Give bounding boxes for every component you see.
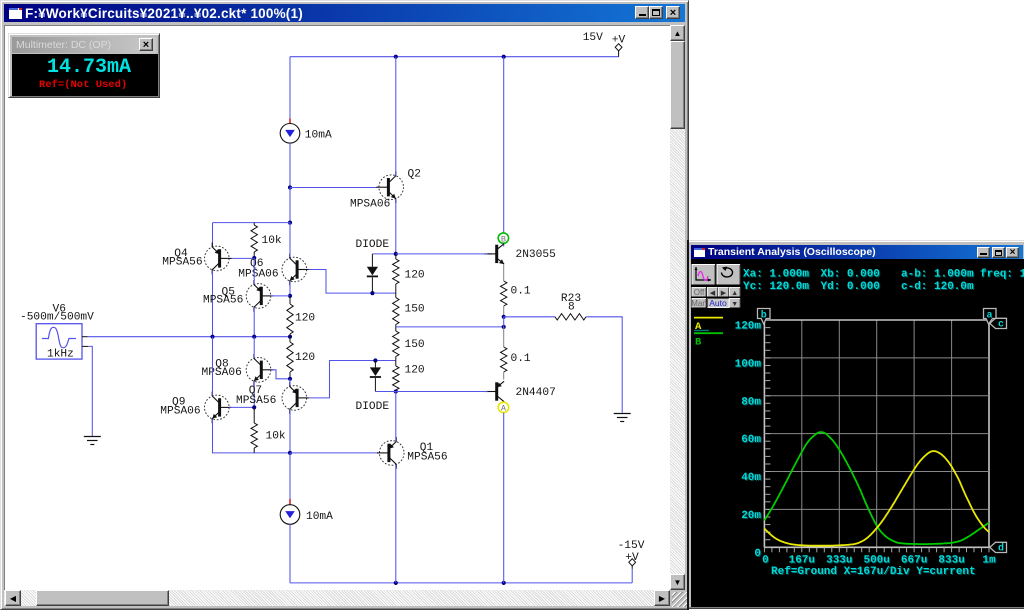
node diode1 cathode tee bbox=[370, 291, 374, 295]
svg-text:10mA: 10mA bbox=[306, 511, 333, 523]
trace A yellow bbox=[764, 451, 989, 546]
wire Q6 base to bias ladder bbox=[309, 270, 396, 294]
main title bar bbox=[4, 4, 685, 22]
svg-text:Off: Off bbox=[694, 288, 705, 297]
svg-text:10k: 10k bbox=[266, 431, 286, 443]
resistor 120 VAS bottom bbox=[395, 361, 397, 367]
svg-text:Yc: 120.0m: Yc: 120.0m bbox=[743, 281, 809, 293]
svg-text:a-b: 1.000m: a-b: 1.000m bbox=[901, 269, 974, 281]
plot grid bbox=[763, 320, 765, 547]
wire top +15V rail bbox=[290, 56, 619, 58]
wire Q6 emitter down bbox=[289, 282, 291, 296]
node Q1 emitter / bottom rail bbox=[394, 581, 398, 585]
diode D2 bbox=[374, 361, 376, 368]
wire Q4 collector down to input node bbox=[212, 271, 214, 337]
transistor U3 2N4407 bbox=[495, 382, 498, 400]
diode D1 bbox=[371, 254, 373, 267]
node Q9 base / Q8 emitter / 10k2 bbox=[252, 405, 256, 409]
multimeter reading 14.73mA bbox=[47, 56, 131, 79]
svg-text:A: A bbox=[501, 404, 507, 414]
resistor 120 bias upper bbox=[289, 296, 291, 304]
wire output node to driver rail bbox=[396, 326, 504, 328]
wire Q9 collector up bbox=[212, 337, 214, 396]
svg-text:120: 120 bbox=[295, 313, 315, 325]
scope toolbar button waveform bbox=[692, 265, 715, 285]
svg-text:8: 8 bbox=[568, 302, 575, 314]
node output rail / bottom rail bbox=[502, 581, 506, 585]
svg-text:120: 120 bbox=[295, 352, 315, 364]
wire Q5 collector up to 10k node bbox=[253, 258, 255, 284]
svg-text:A: A bbox=[695, 321, 702, 333]
node input/120 chain bbox=[288, 335, 292, 339]
transistor Q1 MPSA56 bbox=[379, 441, 404, 466]
svg-text:◀: ◀ bbox=[710, 290, 716, 297]
scope small buttons row1 bbox=[692, 288, 740, 298]
svg-text:150: 150 bbox=[405, 339, 425, 351]
wire Q8 emitter down bbox=[253, 382, 255, 408]
ground symbol V6 bbox=[84, 436, 101, 438]
transistor Q5 MPSA56 bbox=[246, 284, 271, 309]
svg-text:120m: 120m bbox=[735, 321, 762, 333]
svg-text:0: 0 bbox=[762, 555, 769, 567]
svg-text:Xa: 1.000m: Xa: 1.000m bbox=[743, 269, 809, 281]
node top rail / Q2 collector junction bbox=[394, 55, 398, 59]
wire Q2 base bbox=[290, 187, 378, 189]
svg-text:60m: 60m bbox=[741, 434, 761, 446]
svg-text:MPSA56: MPSA56 bbox=[162, 257, 202, 269]
wire Q8 base to 120 chain bottom bbox=[271, 370, 290, 379]
wire 2N4407 base from VAS bbox=[396, 391, 488, 393]
wire Q4 base bbox=[232, 257, 255, 259]
wire Q7 emitter down to lower node bbox=[289, 410, 291, 453]
svg-text:-15V: -15V bbox=[618, 540, 645, 552]
wire col-C to upper bias node bbox=[289, 188, 291, 223]
multimeter display bbox=[12, 54, 158, 96]
wire Q1 emitter to bottom rail bbox=[395, 465, 397, 583]
node Q2 emitter / VAS rail bbox=[394, 252, 398, 256]
wire output rail top from rail to node B bbox=[503, 57, 505, 233]
transistor Q4 MPSA56 bbox=[205, 246, 230, 271]
wire Q5 emitter down to input wire bbox=[253, 308, 255, 337]
resistor 0.1 lower bbox=[501, 347, 507, 372]
legend channel A bbox=[694, 317, 723, 319]
oscilloscope window bbox=[687, 240, 1024, 609]
wire upper bias rail to Q4 emitter column bbox=[213, 222, 291, 224]
svg-text:1m: 1m bbox=[982, 555, 996, 567]
svg-text:Q2: Q2 bbox=[408, 169, 421, 181]
wire Q4 emitter up bbox=[212, 223, 214, 247]
resistor 10k upper bbox=[253, 223, 255, 225]
wire I1 to node Q2-base tee bbox=[289, 143, 291, 187]
svg-text:d: d bbox=[998, 542, 1004, 554]
svg-text:MPSA56: MPSA56 bbox=[203, 295, 243, 307]
svg-text:b: b bbox=[761, 310, 767, 322]
power terminal +V 15V bbox=[618, 50, 620, 56]
svg-text:833u: 833u bbox=[938, 555, 964, 567]
wire Q9 base bbox=[229, 406, 254, 408]
multimeter window bbox=[8, 33, 160, 98]
svg-text:freq: 1: freq: 1 bbox=[980, 269, 1024, 281]
horizontal scrollbar bbox=[4, 590, 670, 606]
svg-text:10mA: 10mA bbox=[305, 130, 332, 142]
svg-text:2N3055: 2N3055 bbox=[516, 249, 556, 261]
svg-text:MPSA06: MPSA06 bbox=[202, 367, 242, 379]
wire V6 minus to ground bbox=[82, 345, 88, 347]
svg-text:+V: +V bbox=[625, 552, 639, 564]
wire Q2 collector to top rail bbox=[395, 57, 397, 176]
wire 2N4407 collector to node A bbox=[503, 401, 505, 404]
scope small buttons row2 bbox=[691, 298, 740, 308]
resistor 150 VAS upper bbox=[393, 298, 399, 325]
svg-text:MPSA06: MPSA06 bbox=[350, 199, 390, 211]
resistor R23 8ohm bbox=[555, 314, 586, 320]
svg-text:MPSA06: MPSA06 bbox=[160, 406, 200, 418]
transistor Q6 MPSA06 bbox=[282, 257, 307, 282]
red polarity tick I2 bbox=[289, 499, 291, 505]
transistor U2 2N3055 bbox=[495, 245, 498, 263]
node diode2 anode tee bbox=[373, 358, 377, 362]
schematic drawing bbox=[4, 25, 669, 589]
voltage source V6 box bbox=[36, 324, 82, 359]
svg-text:333u: 333u bbox=[826, 555, 852, 567]
legend channel B bbox=[694, 332, 723, 334]
node input/Q4-Q9 column bbox=[210, 335, 214, 339]
svg-text:DIODE: DIODE bbox=[356, 239, 390, 251]
wire I2 to bottom rail bbox=[289, 524, 291, 583]
svg-text:Man: Man bbox=[691, 299, 707, 308]
svg-text:500u: 500u bbox=[863, 555, 889, 567]
wire 2N3055 base from VAS bbox=[396, 253, 488, 255]
wire Q1 base bbox=[290, 452, 378, 454]
node output feedback bbox=[502, 325, 506, 329]
svg-text:667u: 667u bbox=[901, 555, 927, 567]
resistor 120 bias lower bbox=[289, 337, 291, 342]
svg-text:c: c bbox=[998, 319, 1004, 330]
wire Q7 collector up bbox=[289, 379, 291, 386]
cursor tags a b c d bbox=[758, 309, 771, 325]
wire R23 to ground bbox=[586, 317, 622, 413]
svg-text:Yd: 0.000: Yd: 0.000 bbox=[821, 281, 880, 293]
wire VAS bottom to Q1 collector bbox=[395, 392, 397, 442]
wire to R23 bbox=[504, 316, 555, 318]
node top rail / output rail junction bbox=[502, 55, 506, 59]
svg-text:▶: ▶ bbox=[721, 290, 727, 297]
scope readout row1 bbox=[743, 269, 1024, 294]
svg-text:100m: 100m bbox=[735, 358, 762, 370]
node input/Q5-Q8 column bbox=[252, 335, 256, 339]
node upper bias bbox=[288, 221, 292, 225]
svg-text:2N4407: 2N4407 bbox=[516, 387, 556, 399]
resistor 10k lower bbox=[253, 407, 255, 423]
transistor Q9 MPSA06 bbox=[205, 395, 230, 420]
svg-text:1kHz: 1kHz bbox=[47, 349, 74, 361]
svg-text:▲: ▲ bbox=[731, 290, 738, 297]
node output/R23 bbox=[502, 315, 506, 319]
diode D1 wire from Q2 emitter node bbox=[372, 253, 395, 255]
V6 sine symbol bbox=[42, 327, 76, 348]
svg-text:Ref=Ground X=167u/Div Y=curre: Ref=Ground X=167u/Div Y=current bbox=[771, 566, 976, 578]
canvas bbox=[4, 25, 670, 590]
svg-text:a: a bbox=[986, 311, 992, 322]
wire node A to bottom rail bbox=[503, 413, 505, 583]
vertical scrollbar bbox=[670, 25, 685, 590]
svg-text:c-d: 120.0m: c-d: 120.0m bbox=[901, 281, 974, 293]
ground symbol R23 bbox=[614, 413, 631, 415]
app icon bbox=[9, 8, 22, 19]
wire Q7 base to lower diode net bbox=[309, 361, 396, 398]
node lower diode junction bbox=[394, 389, 398, 393]
transistor Q8 MPSA06 bbox=[246, 358, 271, 383]
svg-text:Xb: 0.000: Xb: 0.000 bbox=[821, 269, 880, 281]
oscilloscope content svg bbox=[687, 240, 1024, 610]
resistor 120 VAS top bbox=[395, 254, 397, 259]
wire output node down to R 0.1 lower bbox=[503, 327, 505, 347]
wire lower node to current source I2 bbox=[289, 453, 291, 499]
svg-text:MPSA56: MPSA56 bbox=[236, 395, 276, 407]
wire Q2 emitter down to diode node bbox=[395, 199, 397, 254]
svg-text:120: 120 bbox=[405, 365, 425, 377]
resistor 150 VAS lower bbox=[395, 327, 397, 331]
wire col-C from top rail to current source I1 bbox=[289, 57, 291, 119]
svg-text:150: 150 bbox=[405, 304, 425, 316]
resize grip bbox=[672, 592, 687, 607]
transistor Q2 MPSA06 bbox=[379, 175, 404, 200]
node Q4 base / 10k / Q5 collector bbox=[252, 256, 256, 260]
svg-text:10k: 10k bbox=[262, 235, 282, 247]
svg-text:167u: 167u bbox=[789, 555, 815, 567]
svg-text:0.1: 0.1 bbox=[511, 353, 531, 365]
svg-text:80m: 80m bbox=[741, 396, 761, 408]
resistor 0.1 upper bbox=[501, 281, 507, 306]
current source I1 10mA bbox=[280, 124, 300, 144]
svg-text:20m: 20m bbox=[741, 510, 761, 522]
main window edge line beside scope bbox=[687, 240, 689, 610]
node 120 chain bottom / Q7 collector bbox=[288, 377, 292, 381]
svg-text:Auto: Auto bbox=[709, 298, 727, 308]
node lower bias / Q1 base net bbox=[288, 451, 292, 455]
svg-text:120: 120 bbox=[405, 270, 425, 282]
wire -15V terminal riser bbox=[631, 569, 633, 583]
power terminal +V -15V bbox=[631, 565, 633, 569]
axis labels bbox=[735, 321, 996, 567]
wire Q5 base bbox=[271, 295, 290, 297]
main schematic window bbox=[0, 0, 689, 610]
wire Q8 collector up bbox=[253, 337, 255, 358]
svg-text:B: B bbox=[695, 337, 702, 349]
wire Q6 collector up bbox=[289, 223, 291, 258]
wire node B to 2N3055 bbox=[503, 243, 505, 246]
svg-text:0.1: 0.1 bbox=[511, 286, 531, 298]
svg-text:+V: +V bbox=[612, 35, 626, 47]
node Q2 base tee bbox=[288, 185, 292, 189]
svg-text:0: 0 bbox=[754, 548, 761, 560]
scope toolbar button rescan bbox=[717, 265, 740, 285]
svg-text:-500m/500mV: -500m/500mV bbox=[20, 312, 94, 324]
multimeter ref line bbox=[39, 79, 127, 91]
node marker A bbox=[498, 402, 508, 412]
svg-text:B: B bbox=[501, 234, 506, 244]
node Q5 base junction bbox=[288, 294, 292, 298]
transistor Q7 MPSA56 bbox=[282, 386, 307, 411]
wire 2N3055 emitter to R 0.1 upper bbox=[503, 264, 505, 281]
svg-text:▼: ▼ bbox=[731, 301, 738, 308]
svg-text:MPSA06: MPSA06 bbox=[238, 269, 278, 281]
wire bottom -15V rail bbox=[290, 582, 632, 584]
svg-text:MPSA56: MPSA56 bbox=[407, 452, 447, 464]
svg-text:40m: 40m bbox=[741, 472, 761, 484]
wire input net from V6 to bias chain bbox=[88, 336, 291, 338]
trace B green bbox=[764, 432, 989, 544]
current source I2 10mA bbox=[280, 505, 300, 525]
wire Q9 emitter down and across bbox=[213, 419, 291, 453]
node marker B bbox=[498, 233, 508, 243]
caption buttons bbox=[635, 6, 649, 19]
svg-text:15V: 15V bbox=[583, 32, 603, 44]
red polarity tick I1 bbox=[289, 119, 291, 124]
wire V6 plus stub bbox=[82, 336, 88, 338]
svg-text:DIODE: DIODE bbox=[356, 401, 390, 413]
